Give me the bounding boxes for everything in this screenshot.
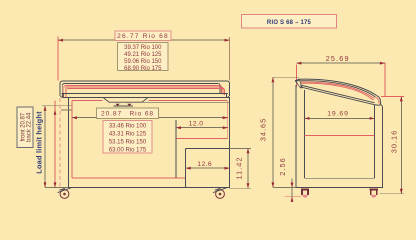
svg-text:30.16: 30.16 (390, 130, 399, 154)
svg-text:20.87 Rio 68: 20.87 Rio 68 (101, 111, 154, 118)
svg-text:49.21 Rio 125: 49.21 Rio 125 (124, 52, 162, 58)
svg-text:front 20.87: front 20.87 (20, 112, 26, 141)
svg-text:59.06 Rio 150: 59.06 Rio 150 (124, 59, 162, 65)
svg-text:11.42: 11.42 (235, 157, 244, 180)
svg-text:63.00 Rio 175: 63.00 Rio 175 (109, 148, 147, 154)
svg-text:68.90 Rio 175: 68.90 Rio 175 (124, 66, 162, 72)
svg-text:26.77 Rio 68: 26.77 Rio 68 (117, 33, 169, 40)
svg-text:33.46 Rio 100: 33.46 Rio 100 (109, 124, 147, 130)
svg-text:25.69: 25.69 (326, 54, 350, 63)
svg-text:39.37 Rio 100: 39.37 Rio 100 (124, 45, 162, 51)
svg-text:RIO S 68 – 175: RIO S 68 – 175 (267, 20, 312, 26)
svg-text:back 22.44: back 22.44 (26, 112, 32, 142)
svg-text:12.6: 12.6 (197, 161, 212, 168)
svg-text:Load limit height: Load limit height (35, 111, 44, 174)
svg-text:43.31 Rio 125: 43.31 Rio 125 (109, 132, 147, 138)
svg-text:19.69: 19.69 (327, 110, 349, 117)
svg-text:12.0: 12.0 (189, 120, 204, 127)
svg-text:34.65: 34.65 (259, 118, 268, 142)
svg-text:2.56: 2.56 (278, 157, 287, 175)
svg-text:53.15 Rio 150: 53.15 Rio 150 (109, 140, 147, 146)
